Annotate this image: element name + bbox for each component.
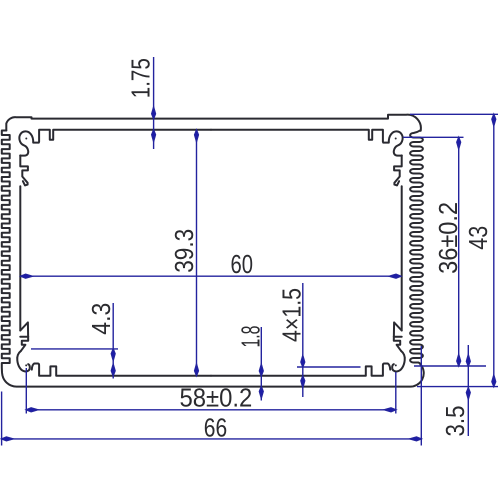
enclosure outer bottom wall <box>2 365 424 387</box>
bottom-right screw boss <box>392 351 405 372</box>
svg-text:4×1.5: 4×1.5 <box>276 288 306 342</box>
inner top wall line with rib and slot tab (right) <box>211 130 383 142</box>
svg-text:1.8: 1.8 <box>235 326 265 348</box>
bottom-left boss screw hole <box>25 364 27 366</box>
dimension 36±0.2 with extension lines <box>403 137 486 366</box>
svg-text:36±0.2: 36±0.2 <box>433 202 463 274</box>
dimension 4×1.5 slot teeth with extension line <box>276 283 360 397</box>
top-left screw boss <box>19 131 38 155</box>
top-right screw boss <box>383 131 402 155</box>
dimension 4.3 boss height with extension line <box>31 303 118 379</box>
top-left boss screw hole <box>25 138 27 140</box>
bottom-left screw boss <box>17 351 30 372</box>
dimension 43 overall height with extension lines <box>410 114 498 386</box>
top-right boss screw hole <box>395 138 397 140</box>
svg-text:4.3: 4.3 <box>86 303 116 335</box>
bottom-left hook bar <box>20 336 28 338</box>
svg-text:66: 66 <box>204 413 227 443</box>
bottom-right snap prong and hook <box>394 322 402 350</box>
left side heatsink fin serrations <box>2 131 10 373</box>
svg-text:58±0.2: 58±0.2 <box>179 382 252 412</box>
dimension 60 inner width <box>21 249 401 279</box>
dimension 66 overall width with extension lines <box>2 346 422 446</box>
right inner wall <box>401 186 403 330</box>
svg-text:1.75: 1.75 <box>126 58 156 98</box>
dimension 58±0.2 with extension lines <box>26 368 396 414</box>
enclosure outer top wall and corners <box>6 115 421 131</box>
bottom-right boss screw hole <box>395 364 397 366</box>
inner top wall line with rib and slot tab <box>39 130 211 142</box>
top-right wall step and snap prong <box>394 155 402 185</box>
dimension 1.8 bottom wall thickness <box>235 326 265 401</box>
top-left wall step and snap prong <box>20 155 28 185</box>
svg-text:3.5: 3.5 <box>440 406 470 437</box>
right side heatsink fin serrations <box>410 130 423 365</box>
bottom-right hook bar <box>394 336 402 338</box>
svg-text:43: 43 <box>463 226 493 250</box>
bottom-left snap prong and hook <box>20 322 28 350</box>
svg-text:60: 60 <box>230 249 253 279</box>
svg-text:39.3: 39.3 <box>169 229 199 273</box>
inner bottom wall line with slot teeth (right) <box>211 364 390 376</box>
dimension 39.3 inner height <box>169 130 199 376</box>
inner bottom wall line with slot teeth <box>32 364 211 376</box>
dimension 3.5 bottom lip <box>440 345 470 437</box>
dimension 1.75 wall thickness <box>126 57 156 149</box>
left inner wall <box>19 186 21 330</box>
